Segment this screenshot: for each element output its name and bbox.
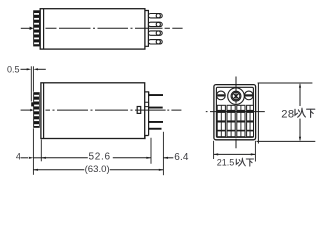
side view knob [33, 92, 40, 128]
side view body [41, 83, 145, 139]
top view pin 3 [148, 31, 162, 35]
side view pin 3 [149, 121, 163, 123]
top view pointer arrow [30, 27, 34, 30]
dimension 0.5 line left [21, 68, 29, 70]
top view pin 1 hole [156, 14, 160, 18]
top view knob slots [34, 13, 39, 44]
extension line flange face [150, 138, 152, 164]
front view knob inner circle [232, 92, 240, 100]
top view bezel line [43, 9, 45, 49]
side view knob slots [34, 95, 39, 126]
dimension 6.4 line [163, 157, 173, 159]
side view bottom step [145, 136, 149, 139]
svg-text:21.5: 21.5 [217, 157, 235, 167]
dimension 28 bottom reference line [257, 140, 316, 142]
side view pin 4 [149, 128, 162, 130]
front view right screw [244, 91, 253, 100]
top view body [40, 9, 145, 49]
dimension 4 arrow [29, 157, 34, 159]
dimension 52.6 line [41, 157, 88, 159]
top view pin 2 [148, 22, 162, 26]
front view knob middle circle [231, 91, 241, 101]
extension line pointer tip [30, 66, 32, 101]
front view inner rect [216, 87, 253, 137]
dimension 63.0 arrow left [33, 169, 38, 171]
top view flange strip [145, 11, 149, 47]
front view knob outer circle [228, 88, 245, 105]
top view centerline leader [21, 27, 32, 29]
dimension 4-52.6 shared line [33, 157, 41, 159]
dimension 21.5 arrow left [214, 153, 219, 155]
dimension 0.5 arrow right [33, 68, 38, 70]
top view pin 2 hole [156, 22, 160, 26]
extension line knob bottom [32, 128, 34, 175]
dimension 21.5 line [214, 153, 256, 155]
dimension 21.5 extension right [254, 141, 256, 162]
extension line body face bottom [40, 139, 42, 161]
side view latch square [137, 107, 141, 114]
side view pin bump 2 [145, 102, 149, 106]
front view horizontal dash-dot centerline [206, 111, 265, 113]
dimension 52.6 arrow left [41, 157, 46, 159]
side view pin 2 [149, 107, 163, 109]
dimension 28 down arrow [299, 119, 301, 141]
side view pointer arrow [30, 109, 33, 112]
dimension 52.6 arrow right [146, 157, 151, 159]
side view centerline dash-dot [46, 109, 182, 111]
side view pin bump 1 [145, 92, 149, 97]
side view flange edge [148, 92, 150, 136]
dimension 21.5 extension left [213, 141, 215, 159]
dimension 63.0 arrow right [159, 169, 164, 171]
svg-text:28: 28 [281, 108, 294, 120]
top view pin 1 [148, 14, 162, 18]
label 28 ika glyphs [295, 108, 315, 117]
label 21.5 ika glyphs [236, 158, 253, 166]
dimension 28 top reference line [258, 82, 313, 84]
top view pin 4 [148, 40, 162, 44]
side view centerline leader [21, 109, 32, 111]
extension line knob face [32, 66, 34, 92]
dimension 21.5 arrow right [251, 153, 256, 155]
top view pin 4 hole [156, 40, 160, 44]
dimension 0.5 arrow left [27, 68, 32, 70]
dimension 28 vertical edge line [257, 83, 259, 144]
side view pin 1 [149, 94, 163, 96]
top view knob [33, 10, 40, 46]
top view pin 3 hole [156, 31, 160, 35]
front view knob phillips cross [234, 94, 239, 99]
svg-text:0.5: 0.5 [7, 65, 20, 75]
dimension 6.4 arrow left [163, 157, 168, 159]
front view left screw [217, 91, 226, 100]
dimension 28 up arrow [299, 84, 301, 106]
top view centerline dash-dot [46, 27, 183, 29]
side view bezel line [43, 83, 45, 139]
front view outer rect [214, 85, 256, 140]
dimension 0.5 line right [36, 68, 46, 70]
svg-text:(63.0): (63.0) [85, 164, 110, 175]
svg-text:6.4: 6.4 [174, 152, 189, 163]
svg-text:52.6: 52.6 [89, 152, 111, 163]
side view pointer bump [31, 102, 33, 106]
dimension 63.0 line [33, 169, 84, 171]
dimension 4 line left [21, 157, 28, 159]
front view terminal grid [217, 105, 253, 136]
front view vertical centerline [235, 77, 237, 104]
svg-text:4: 4 [16, 151, 21, 161]
extension line pin tip [162, 132, 164, 175]
